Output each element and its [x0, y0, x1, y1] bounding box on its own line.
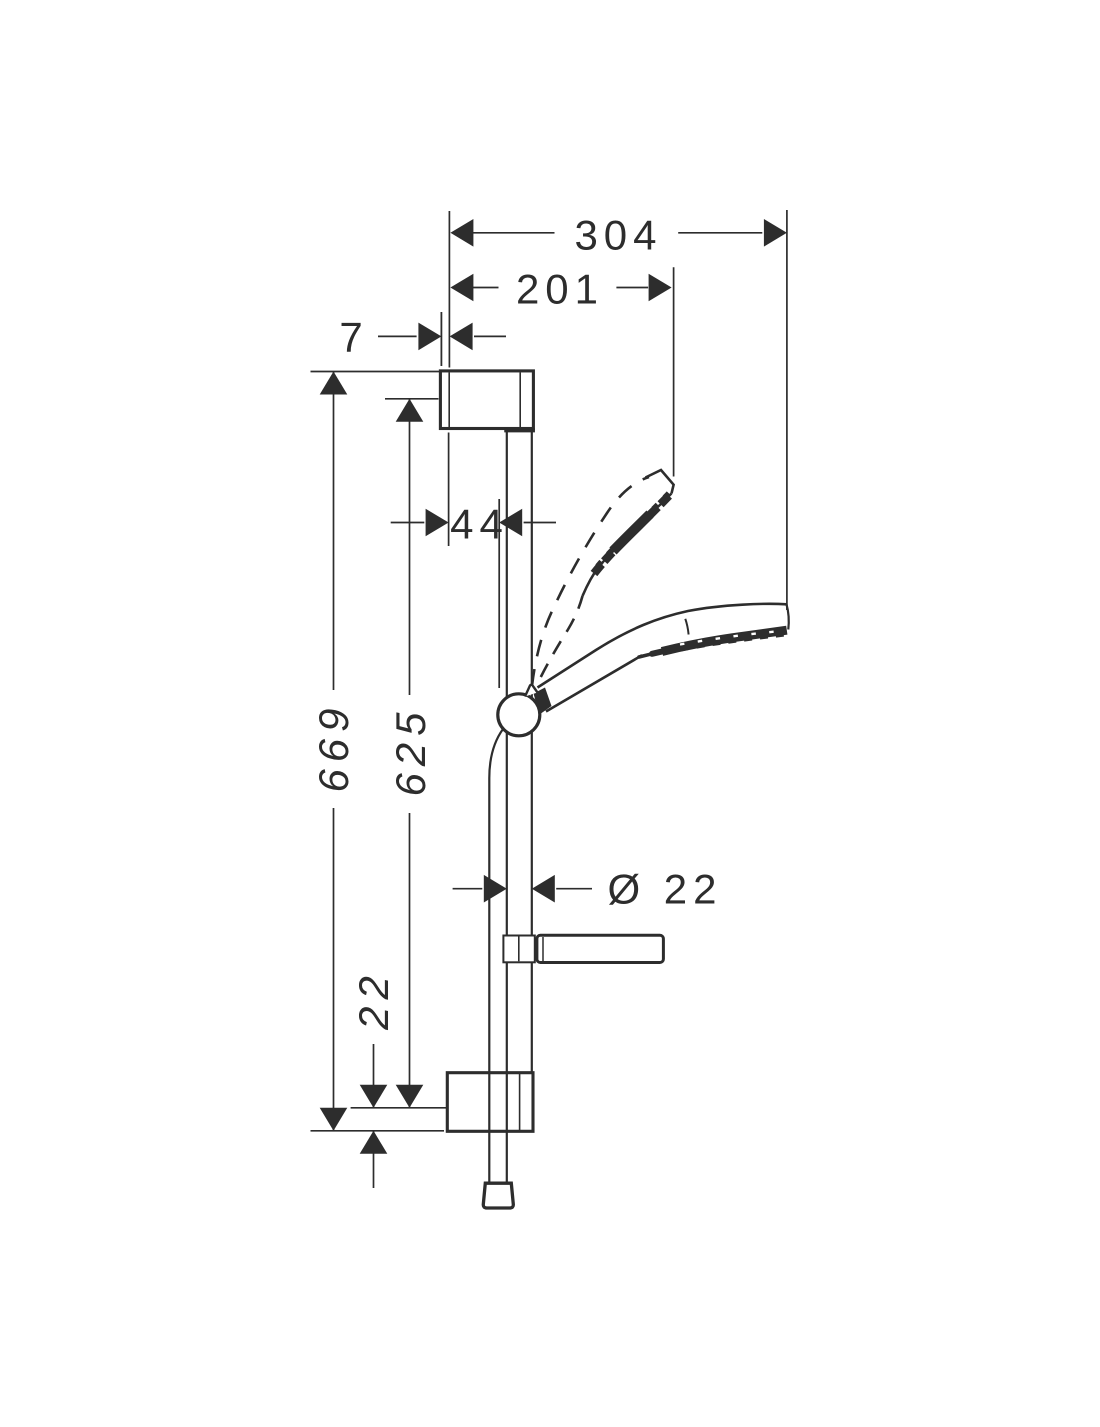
wall bracket top [440, 371, 533, 431]
rail right edge [531, 430, 533, 1073]
extension line below bracket (44 dim left) [448, 433, 450, 547]
dimension 625 vertical [396, 399, 424, 1108]
svg-text:Ø 22: Ø 22 [607, 866, 722, 913]
dashed head top corner [646, 470, 674, 494]
rail left edge [506, 430, 508, 1183]
dimension 201 [450, 274, 671, 302]
extension line for 201 (dashed head) [673, 267, 675, 476]
dimension 669 vertical [320, 372, 348, 1131]
hand shower handle bottom edge [546, 655, 642, 711]
reference line rail top (625) [385, 398, 439, 400]
dashed handle outer curve [532, 477, 649, 686]
pivot holder circle [498, 694, 540, 736]
svg-text:669: 669 [310, 701, 357, 792]
dashed head spray face [593, 493, 672, 574]
hose connector [483, 1183, 513, 1208]
head tick line [685, 619, 688, 635]
svg-text:7: 7 [339, 313, 362, 360]
dashed handle inner curve [541, 596, 583, 677]
holder notch [525, 685, 538, 697]
dimension diameter 22 [453, 875, 592, 903]
hand shower spray face [639, 630, 787, 657]
wall bracket bottom [447, 1073, 533, 1132]
reference line bottom bracket top (625/22) [351, 1107, 446, 1109]
extension line top-left (rail reference) [448, 211, 450, 368]
reference line top of bracket (669) [311, 371, 441, 373]
dimension 22 vertical [360, 1044, 388, 1188]
hose [489, 729, 503, 1183]
hose lines across bottom bracket [489, 1073, 507, 1132]
extension line 44 dim right [498, 499, 500, 688]
svg-text:304: 304 [574, 212, 662, 259]
dimension 304 [450, 219, 787, 247]
hand shower head right edge [787, 604, 789, 629]
svg-text:625: 625 [387, 705, 434, 796]
svg-text:22: 22 [350, 969, 397, 1031]
extension line for 304 (solid head) [786, 210, 788, 610]
svg-text:44: 44 [450, 501, 509, 548]
wall line (7 dim) [440, 312, 442, 366]
soap dish clamp [503, 936, 534, 963]
soap dish [537, 935, 664, 962]
reference line bottom bracket bottom (669/22) [311, 1130, 445, 1132]
dimension 7 [378, 323, 506, 351]
holder dark wedge [534, 688, 552, 715]
dimension 44 [391, 509, 556, 537]
svg-text:201: 201 [516, 266, 604, 313]
hand shower handle top edge [538, 604, 787, 688]
dashed handle solid transition [583, 567, 600, 597]
